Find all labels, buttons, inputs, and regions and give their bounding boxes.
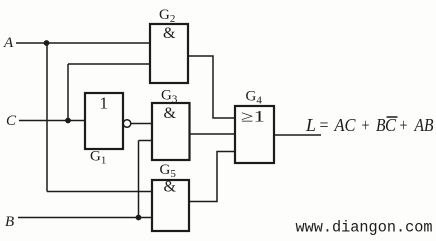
svg-text:C: C (385, 115, 396, 135)
wire G5 output (189, 152, 235, 202)
svg-text:G5: G5 (160, 162, 177, 180)
svg-text:B: B (5, 214, 14, 230)
node junction on C line (65, 118, 71, 124)
svg-text:AC: AC (334, 115, 356, 135)
wire B vertical rise (138, 141, 140, 218)
svg-text:&: & (164, 179, 177, 196)
NOT gate U G1 box (85, 93, 123, 149)
svg-text:1: 1 (100, 94, 109, 113)
wire C to G2 lower input (68, 63, 150, 65)
overbar of C in formula (387, 116, 398, 118)
node output formula L = AC + BC-bar + AB (305, 115, 434, 135)
wire C horizontal (19, 120, 85, 122)
svg-text:=: = (320, 115, 329, 135)
svg-text:L: L (305, 115, 316, 135)
wire C vertical rise (67, 64, 69, 121)
svg-text:A: A (3, 35, 14, 51)
svg-text:&: & (164, 105, 177, 122)
OR gate G4 box (235, 106, 274, 163)
wire G1 output to G3 upper input (131, 123, 152, 125)
wire G3 output to G4 middle input (190, 133, 236, 135)
AND gate G3 box (152, 103, 190, 160)
svg-text:≥1: ≥1 (241, 109, 265, 126)
node junction on A line (44, 40, 50, 46)
svg-text:+: + (400, 115, 408, 135)
svg-text:G1: G1 (90, 149, 106, 167)
svg-text:G3: G3 (161, 88, 178, 106)
inversion bubble of G1 (123, 120, 131, 128)
AND gate G2 box (150, 24, 188, 83)
svg-text:C: C (6, 113, 17, 129)
svg-text:G2: G2 (159, 7, 175, 25)
node junction on B line (136, 215, 142, 221)
wire A vertical drop (46, 43, 48, 192)
svg-text:www.diangon.com: www.diangon.com (296, 219, 433, 237)
wire A to G5 input (47, 191, 152, 193)
wire B to G3 lower input (139, 140, 153, 142)
svg-text:+: + (362, 115, 370, 135)
wire G2 output (188, 56, 235, 118)
wire B horizontal (18, 217, 152, 219)
wire A horizontal (16, 42, 150, 44)
svg-text:G4: G4 (246, 89, 263, 107)
svg-text:AB: AB (414, 115, 434, 135)
wire G4 output (274, 134, 321, 136)
svg-text:&: & (163, 25, 176, 42)
AND gate G5 box (152, 180, 189, 231)
